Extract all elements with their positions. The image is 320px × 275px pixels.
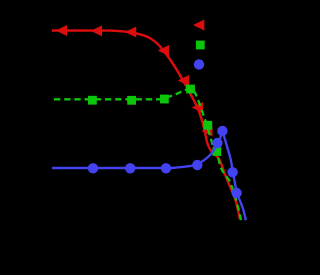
red triangle markers: [56, 25, 213, 137]
legend green square: [196, 41, 205, 50]
green square markers: [88, 85, 221, 156]
blue curve (solid line): [52, 131, 246, 220]
red curve (solid line): [52, 31, 240, 220]
green curve (dashed line): [54, 89, 241, 221]
green dash segment (tail): [232, 191, 234, 197]
legend red triangle: [193, 20, 204, 31]
legend blue circle: [194, 59, 204, 69]
blue circle markers: [88, 126, 242, 198]
